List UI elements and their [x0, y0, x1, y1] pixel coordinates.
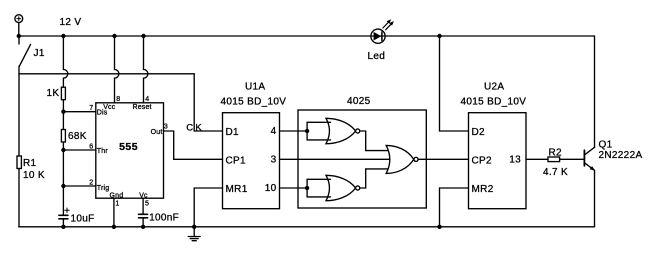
wire: U1A pin3 output through 4025 to mid input of output NOR — [280, 158, 393, 160]
svg-text:D1: D1 — [226, 127, 240, 138]
wire: R2 to Q1 base — [560, 158, 584, 160]
svg-text:R2: R2 — [549, 147, 563, 158]
wire: top 12V rail — [19, 35, 595, 37]
svg-text:3: 3 — [271, 155, 277, 166]
svg-text:Reset: Reset — [133, 104, 152, 111]
NOR gate A (top, inputs tied) — [326, 118, 360, 143]
wire: to 555 Thr pin 6 — [63, 149, 95, 151]
svg-text:2: 2 — [89, 179, 93, 186]
svg-text:C: C — [186, 122, 193, 133]
svg-text:J1: J1 — [34, 48, 45, 59]
svg-text:10: 10 — [265, 183, 277, 194]
NOR gate C (3-input output gate) — [386, 145, 418, 173]
svg-text:Out: Out — [151, 129, 163, 136]
svg-text:5: 5 — [145, 200, 149, 207]
resistor 1K — [61, 87, 65, 100]
wire: LED node down to D2 — [440, 36, 469, 131]
svg-text:MR2: MR2 — [472, 184, 494, 195]
wire: U2A pin13 to R2 — [526, 158, 548, 160]
wire: Reset vertical with hop — [144, 36, 148, 103]
LED Led — [371, 19, 394, 43]
wire: MR1 to ground — [194, 188, 222, 227]
svg-text:68K: 68K — [68, 131, 87, 142]
svg-text:10uF: 10uF — [71, 214, 95, 225]
svg-text:4: 4 — [145, 96, 149, 103]
transistor Q1 2N2222A — [584, 147, 595, 170]
svg-text:R1: R1 — [23, 158, 37, 169]
svg-text:CP2: CP2 — [472, 156, 493, 167]
svg-text:D2: D2 — [472, 127, 486, 138]
wire: 555 Out pin 3 to CP1 — [164, 131, 223, 159]
wire: bottom ground rail — [19, 226, 595, 228]
wire: Vcc vertical with hop — [115, 36, 119, 103]
svg-text:100nF: 100nF — [149, 213, 179, 224]
svg-text:1: 1 — [115, 200, 119, 207]
power supply +12V symbol — [15, 15, 23, 36]
wire: top NOR output step down to output gate — [360, 131, 391, 151]
svg-text:8: 8 — [116, 96, 120, 103]
gate block 4025 — [298, 110, 426, 208]
svg-text:U1A: U1A — [245, 82, 265, 93]
resistor 68K — [61, 130, 65, 143]
wire: 1K to 68K chain — [62, 100, 64, 130]
wire: CK vertical down to D1 — [194, 74, 222, 131]
wire: U1A pin4 output to top NOR input — [280, 130, 308, 132]
svg-text:4: 4 — [271, 126, 277, 137]
node: bottom rail junction dots — [61, 225, 441, 229]
wire: 68K down to 10uF — [62, 142, 64, 215]
wire: J1 output horizontal to CK — [19, 73, 194, 75]
wire: to 555 Dis pin 7 — [63, 111, 95, 113]
svg-text:Gnd: Gnd — [110, 193, 124, 200]
ground symbol — [188, 227, 200, 241]
wire: vertical from rail to 1K with hop — [63, 36, 67, 87]
svg-text:1K: 1K — [47, 88, 60, 99]
node: top rail junction dots — [17, 34, 442, 38]
node: Trig junction — [61, 184, 65, 188]
svg-text:CP1: CP1 — [226, 156, 247, 167]
NOR gate B (bottom, inputs tied) — [326, 175, 360, 200]
svg-text:6: 6 — [89, 143, 93, 150]
svg-text:MR1: MR1 — [226, 184, 248, 195]
node: Thr junction — [61, 148, 65, 152]
wire: 555 Vc pin to 100nF — [142, 198, 144, 214]
svg-text:4015 BD_10V: 4015 BD_10V — [461, 96, 527, 107]
svg-text:555: 555 — [119, 141, 138, 153]
wire: bottom NOR output step up to output gate — [360, 169, 391, 188]
svg-text:7: 7 — [89, 105, 93, 112]
svg-text:Vcc: Vcc — [103, 104, 116, 111]
node: top NOR input junction — [305, 129, 309, 133]
shift register U1A — [223, 113, 280, 209]
svg-text:U2A: U2A — [484, 82, 504, 93]
capacitor C 10uF polarized — [59, 208, 69, 227]
svg-text:Thr: Thr — [97, 148, 109, 155]
wire: right vertical from rail to Q1 collector — [594, 36, 596, 147]
wire: bottom NOR tied inputs loop — [307, 179, 330, 197]
svg-text:13: 13 — [509, 155, 521, 166]
wire: top NOR tied inputs loop — [307, 122, 330, 140]
op-amp/timer U 555 body — [96, 103, 164, 198]
capacitor C 100nF — [139, 214, 148, 227]
svg-text:4025: 4025 — [347, 96, 371, 107]
resistor R2 — [548, 157, 560, 162]
node: bottom NOR input junction — [305, 186, 309, 190]
wire: to 555 Trig pin 2 — [63, 185, 95, 187]
svg-text:Led: Led — [368, 51, 386, 62]
svg-text:12 V: 12 V — [60, 17, 82, 28]
svg-text:3: 3 — [164, 124, 168, 131]
wire: MR2 to bottom rail — [440, 188, 469, 227]
node: Dis junction — [61, 110, 65, 114]
wire: 4025 output to U2A CP2 — [418, 158, 468, 160]
wire: 555 Gnd pin to bottom rail — [113, 198, 115, 227]
svg-text:Trig: Trig — [97, 185, 110, 192]
resistor R1 — [17, 156, 21, 169]
wire: Q1 emitter down to bottom rail — [594, 170, 596, 227]
svg-text:K: K — [195, 122, 202, 133]
svg-text:2N2222A: 2N2222A — [599, 150, 643, 161]
switch J1 — [19, 36, 31, 156]
wire: R1 to bottom rail — [18, 169, 20, 227]
wire: U1A pin10 output to bottom NOR input — [280, 187, 308, 189]
svg-text:4.7 K: 4.7 K — [543, 167, 568, 178]
svg-text:10 K: 10 K — [23, 170, 45, 181]
svg-text:4015 BD_10V: 4015 BD_10V — [221, 96, 287, 107]
shift register U2A — [469, 113, 527, 209]
